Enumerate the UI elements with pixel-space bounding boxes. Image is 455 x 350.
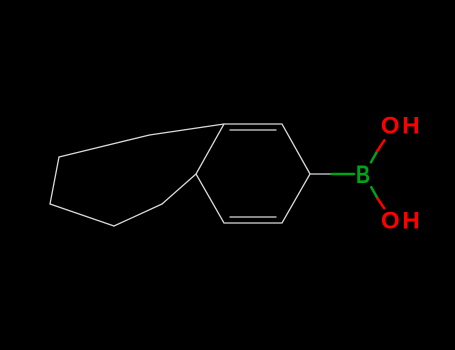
svg-text:B: B [356,161,370,189]
bond C1 to B (boron half) [332,173,354,176]
ring edge E to C4 [162,174,196,204]
ring edge D-E [114,204,162,226]
bond C1 to B (carbon half) [310,173,332,175]
ring edge A-B [59,135,150,157]
double bond inner line top [230,129,276,131]
svg-text:O: O [381,208,400,235]
svg-text:H: H [402,112,419,139]
bond B to O upper (oxygen half) [377,140,384,151]
bond B to O lower (boron half) [371,187,377,198]
svg-text:O: O [381,112,400,139]
bond B to O lower (oxygen half) [378,199,385,209]
benzene ring C1-C6 [196,124,310,223]
bond C3 to cycloheptane A [150,124,225,135]
ring edge B-C [50,157,59,204]
ring edge C-D [50,204,114,226]
svg-text:H: H [402,208,419,235]
double bond inner line bottom [230,216,276,218]
bond B to O upper (boron half) [371,151,377,162]
